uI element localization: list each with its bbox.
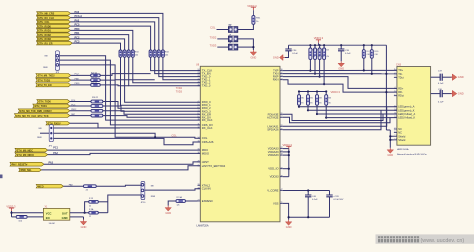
- wire bias resistor to line: [323, 59, 325, 84]
- wire VDD pin: [283, 151, 289, 153]
- ground: [340, 61, 342, 63]
- svg-text:35: 35: [281, 202, 283, 204]
- junction on rail: [371, 44, 373, 46]
- wire to RXD_2: [103, 102, 201, 109]
- svg-text:ETH_MII_TX_CLK_ETH_TCK: ETH_MII_TX_CLK_ETH_TCK: [16, 115, 49, 118]
- svg-text:R27 22: R27 22: [91, 72, 97, 74]
- junction: [307, 90, 309, 92]
- svg-text:ETH_TXD0: ETH_TXD0: [39, 101, 52, 104]
- svg-text:10k: 10k: [165, 55, 168, 57]
- svg-text:SPD/A26: SPD/A26: [267, 128, 279, 132]
- net label ETH_MII_TX_CLK_ETH_TCK: [14, 114, 70, 118]
- svg-text:22: 22: [89, 205, 91, 207]
- junction: [309, 70, 311, 72]
- ground: [83, 220, 85, 222]
- pin TXD_3: [198, 85, 201, 87]
- resistor R34 22: [89, 200, 99, 203]
- wire stub at sheet edge: [0, 175, 3, 179]
- junction VDD bus: [288, 151, 290, 153]
- wire bank1 to IC pin: [129, 57, 201, 85]
- svg-text:12: 12: [198, 127, 200, 129]
- net label ETH_TXD3: [36, 78, 71, 82]
- pin NC: [394, 128, 397, 130]
- wire to resistor: [70, 105, 91, 107]
- junction: [307, 216, 309, 218]
- wire bank2 to IC TX pin: [151, 57, 201, 70]
- svg-text:NC: NC: [398, 127, 402, 131]
- junction: [325, 90, 327, 92]
- svg-text:TXD2: TXD2: [210, 36, 217, 40]
- wire to RX_DV: [103, 116, 201, 118]
- wire IC SPD to LEDgreen_K: [283, 110, 381, 129]
- wire to RJ45 LED pin: [299, 106, 397, 108]
- svg-text:270: 270: [309, 103, 312, 105]
- svg-text:ETH_RXD3: ETH_RXD3: [38, 38, 51, 41]
- pin RXN: [280, 79, 283, 81]
- svg-text:6: 6: [198, 107, 199, 109]
- svg-text:23: 23: [198, 72, 200, 74]
- pin TXP: [280, 70, 283, 72]
- svg-text:GND: GND: [273, 56, 279, 60]
- wire MDIO to IC: [48, 153, 201, 154]
- wire shield rail down: [385, 45, 387, 130]
- pin XTAL2: [198, 184, 201, 186]
- resistor R38 270: [316, 95, 319, 106]
- wire ETH_RX_ER to resistor bank: [72, 43, 120, 50]
- junction: [84, 212, 86, 214]
- net label ETH_RX_CLK: [37, 16, 71, 20]
- svg-text:GND: GND: [81, 225, 87, 229]
- svg-text:2: 2: [394, 72, 395, 74]
- pin ACT/A2E: [280, 116, 283, 118]
- wire bank1 to IC pin: [125, 57, 201, 102]
- pin NC: [394, 132, 397, 134]
- wire JP1 to IC CLKIN: [145, 189, 201, 190]
- wire VDD pin: [283, 168, 289, 170]
- wire LED VDD rail: [299, 91, 326, 93]
- pin LNK/A31: [280, 125, 283, 127]
- net label ETH_MII_MDIO: [15, 153, 48, 157]
- pin uINT/TX_ER/TXD4: [198, 165, 201, 167]
- wire to TXD3 row: [100, 84, 129, 87]
- svg-text:ETH_RXD2: ETH_RXD2: [38, 34, 51, 37]
- svg-text:18: 18: [281, 154, 283, 156]
- svg-text:270: 270: [328, 103, 331, 105]
- svg-text:48: 48: [281, 175, 283, 177]
- svg-text:270: 270: [318, 103, 321, 105]
- svg-text:22: 22: [281, 147, 283, 149]
- svg-text:COL: COL: [202, 136, 208, 140]
- svg-text:14: 14: [198, 137, 200, 139]
- svg-text:5: 5: [394, 91, 395, 93]
- resistor R20 49.9: [309, 48, 312, 59]
- pin CLK/IN: [198, 188, 201, 190]
- svg-text:15: 15: [198, 141, 200, 143]
- wire to resistor: [71, 79, 91, 81]
- resistor R132 22: [84, 185, 97, 188]
- capacitor C39 4.7uF: [326, 195, 332, 197]
- svg-text:50.0M: 50.0M: [49, 223, 55, 225]
- wire clock to JP1: [108, 195, 141, 213]
- wire IC LED2 to LED line: [283, 117, 390, 123]
- resistor R29 22: [91, 84, 101, 87]
- junction: [371, 73, 373, 75]
- junction: [319, 76, 321, 78]
- svg-text:3: 3: [394, 76, 395, 78]
- svg-text:R31: R31: [309, 97, 312, 99]
- wire to TXD1 row: [100, 79, 155, 81]
- svg-text:XTAL2: XTAL2: [202, 183, 211, 187]
- jumper JP3 MII/RMII select: [55, 51, 59, 71]
- svg-text:VDD3.3: VDD3.3: [331, 90, 341, 94]
- resistor R35 22: [89, 211, 99, 214]
- svg-text:24: 24: [198, 69, 200, 71]
- wire COL net: [115, 131, 200, 138]
- pin SPD/A26: [280, 129, 283, 131]
- wire VDD rail: [289, 44, 387, 46]
- pin RXD_2: [198, 107, 201, 109]
- resistor array R28: [149, 50, 152, 57]
- wire JP3 pin2 to IC: [60, 60, 201, 125]
- pin VDDA33: [280, 148, 283, 150]
- svg-text:28: 28: [281, 125, 283, 127]
- junction: [288, 216, 290, 218]
- junction: [385, 73, 387, 75]
- wire to LED line: [325, 105, 327, 117]
- svg-text:GND: GND: [165, 211, 171, 215]
- wire R31 to JP2 row1: [238, 24, 254, 29]
- svg-text:10: 10: [394, 109, 396, 111]
- svg-text:ETH_TXD1: ETH_TXD1: [35, 105, 48, 108]
- svg-text:PHY_RESET#: PHY_RESET#: [12, 163, 28, 166]
- wire CT2 to C36: [431, 93, 441, 95]
- svg-text:33: 33: [198, 184, 200, 186]
- svg-text:1.2k: 1.2k: [316, 56, 319, 58]
- pin TXD_1: [198, 79, 201, 81]
- jumper JP1 clock select: [141, 181, 145, 199]
- svg-text:ETH_MII_MDIO: ETH_MII_MDIO: [17, 154, 34, 157]
- pin TD-: [394, 73, 397, 75]
- watermark: [376, 234, 474, 243]
- svg-text:RMII: RMII: [151, 196, 156, 198]
- wire ETH_COL to resistor bank: [71, 22, 155, 50]
- pin RXP: [280, 76, 283, 78]
- wire V_CORE: [283, 190, 330, 192]
- resistor R31 22: [91, 105, 103, 108]
- svg-text:16: 16: [281, 69, 283, 71]
- pin LED(green)_K: [394, 109, 397, 111]
- svg-text:+C39: +C39: [333, 196, 339, 198]
- wire to resistor: [70, 101, 91, 103]
- pin VDD_IO: [280, 168, 283, 170]
- svg-text:C40: C40: [367, 54, 370, 56]
- svg-text:23: 23: [281, 151, 283, 153]
- svg-text:TD+: TD+: [398, 68, 403, 72]
- svg-text:VSS: VSS: [273, 201, 279, 205]
- svg-text:32: 32: [281, 167, 283, 169]
- svg-text:MII: MII: [151, 186, 154, 188]
- svg-text:1.2k: 1.2k: [321, 56, 324, 58]
- wire bias resistor to line: [309, 59, 311, 70]
- svg-text:JP10: JP10: [141, 202, 147, 204]
- svg-text:RMII: RMII: [43, 67, 48, 69]
- svg-text:ETH_RXD0: ETH_RXD0: [38, 25, 51, 28]
- wire VDD pin: [283, 154, 289, 156]
- wire VSS down: [283, 203, 289, 219]
- wire JP3 pin3 down: [60, 65, 116, 131]
- net label ETH_RXDV: [46, 122, 70, 125]
- svg-text:ETH_RX_CLK: ETH_RX_CLK: [38, 17, 54, 20]
- wire VDD bus vertical: [288, 149, 290, 176]
- svg-text:nRST: nRST: [202, 160, 209, 164]
- svg-text:GND: GND: [387, 153, 393, 157]
- svg-text:CLK/IN: CLK/IN: [202, 187, 211, 191]
- svg-text:RD-: RD-: [398, 90, 403, 94]
- wire rail to shield: [386, 129, 390, 131]
- wire TXN to TD-: [283, 73, 397, 75]
- pin RDct: [394, 95, 397, 97]
- svg-text:R29 22: R29 22: [91, 82, 97, 84]
- svg-text:19: 19: [198, 84, 200, 86]
- svg-text:ETH_MII_CRS: ETH_MII_CRS: [38, 13, 54, 16]
- resistor R33 22: [91, 114, 103, 117]
- wire to RJ45 LED pin: [326, 117, 397, 119]
- wire OUT: [70, 212, 89, 214]
- resistor array R29: [153, 50, 156, 57]
- wire bias resistor to line: [319, 59, 321, 76]
- svg-text:7: 7: [198, 110, 199, 112]
- svg-text:GND: GND: [458, 92, 464, 96]
- wire COL to JP2: [217, 29, 229, 31]
- resistor R37 270: [307, 95, 310, 106]
- svg-text:R:20: R:20: [375, 51, 379, 53]
- wire bank2 to IC TX pin: [159, 57, 201, 76]
- ground left: [283, 57, 285, 59]
- net label ETH_RXD1: [37, 29, 71, 33]
- svg-text:C40: C40: [375, 54, 378, 56]
- wire bank1 to IC pin: [133, 57, 201, 82]
- svg-text:LED(Yellow)_K: LED(Yellow)_K: [398, 116, 415, 120]
- svg-text:20: 20: [198, 81, 200, 83]
- svg-text:R 13A: R 13A: [177, 196, 183, 199]
- svg-text:EXRES0: EXRES0: [202, 199, 213, 203]
- svg-text:GND: GND: [251, 55, 257, 59]
- junction: [385, 91, 387, 93]
- svg-text:COL: COL: [210, 25, 216, 29]
- chassis ground: [451, 76, 453, 78]
- svg-text:24: 24: [198, 200, 200, 202]
- svg-text:14: 14: [394, 139, 396, 141]
- wire bank1 to IC pin: [121, 57, 201, 105]
- svg-text:1.2k: 1.2k: [326, 56, 329, 58]
- net label ETH_RXD0: [37, 24, 71, 28]
- svg-text:Shield: Shield: [398, 134, 406, 138]
- svg-text:ETH_MII_TXD2: ETH_MII_TXD2: [38, 75, 56, 78]
- pin TXD_0: [198, 76, 201, 78]
- pin RD-: [394, 91, 397, 93]
- wire to C39: [329, 191, 331, 196]
- wire JP2 row2 to GND rail: [238, 39, 254, 50]
- svg-text:NC: NC: [398, 131, 402, 135]
- wire ground rail: [289, 216, 330, 218]
- svg-text:31: 31: [198, 149, 200, 151]
- svg-text:LED(Yellow)_A: LED(Yellow)_A: [398, 112, 415, 116]
- wire VDD to R31: [252, 10, 254, 15]
- svg-text:12: 12: [394, 116, 396, 118]
- svg-text:Network Interface RJ45 16-Pin: Network Interface RJ45 16-Pin: [397, 153, 428, 156]
- wire to R34: [85, 202, 89, 213]
- svg-text:4: 4: [198, 101, 199, 103]
- wire to RJ45 LED pin: [308, 109, 397, 111]
- svg-text:7: 7: [394, 128, 395, 130]
- junction: [316, 90, 318, 92]
- net label ETH_RX_ER: [37, 41, 73, 45]
- wire to IC nINT: [42, 166, 201, 170]
- junction: [316, 113, 318, 115]
- svg-text:VCC: VCC: [46, 212, 52, 216]
- wire to resistor: [71, 84, 91, 86]
- pin RX_ER: [198, 113, 201, 115]
- wire to LED line: [307, 105, 309, 110]
- svg-text:RMII: RMII: [37, 137, 42, 139]
- svg-text:(www. uucdev. cn): (www. uucdev. cn): [421, 238, 465, 244]
- pin FDUA3E: [280, 113, 283, 115]
- pin RXD_3: [198, 110, 201, 112]
- svg-text:LAN8720A: LAN8720A: [197, 224, 209, 227]
- wire TXD2 to JP2: [217, 38, 228, 40]
- svg-text:TXD3: TXD3: [176, 90, 183, 93]
- svg-text:0.1uF: 0.1uF: [438, 83, 444, 85]
- pin VDD33: [280, 176, 283, 178]
- svg-text:10k: 10k: [135, 55, 138, 57]
- wire VDD pin: [283, 148, 289, 150]
- svg-text:CRS-A26: CRS-A26: [202, 140, 214, 144]
- oscillator X1 50MHz: [43, 208, 69, 220]
- svg-text:21: 21: [198, 78, 200, 80]
- wire to RJ45 LED pin: [317, 113, 397, 115]
- pin VDDA33: [280, 151, 283, 153]
- junction VDD bus: [288, 154, 290, 156]
- pin RX_CLK: [198, 119, 201, 121]
- svg-text:R22: R22: [321, 49, 324, 51]
- svg-text:MCO: MCO: [38, 185, 44, 188]
- svg-text:R 13: R 13: [89, 198, 93, 200]
- resistor R36 270: [298, 95, 301, 106]
- svg-text:R20: R20: [312, 49, 315, 51]
- svg-text:V_CORE: V_CORE: [267, 188, 278, 192]
- svg-text:11: 11: [198, 124, 200, 126]
- pin RD+: [394, 87, 397, 89]
- svg-text:R28 22: R28 22: [91, 77, 97, 79]
- wire shield down: [389, 130, 391, 148]
- wire ETH_RX_CLK to resistor bank: [71, 18, 159, 50]
- junction: [363, 69, 365, 71]
- pin TX_CLK: [198, 70, 201, 72]
- wire to TD line: [371, 58, 373, 74]
- ground: [252, 50, 254, 52]
- svg-text:ETH_MII_TXD_RMII_CRSDV: ETH_MII_TXD_RMII_CRSDV: [20, 110, 52, 113]
- resistor R28 22: [91, 79, 101, 82]
- svg-text:RX_CLK: RX_CLK: [202, 118, 213, 122]
- svg-text:R21: R21: [316, 49, 319, 51]
- svg-text:22: 22: [89, 216, 91, 218]
- net label MCO PA8: [36, 184, 63, 188]
- junction: [340, 44, 342, 46]
- svg-text:TXD_3: TXD_3: [202, 84, 211, 88]
- svg-text:29: 29: [198, 161, 200, 163]
- junction: [10, 212, 12, 214]
- net label ETH_MII_MDC: [15, 148, 48, 152]
- wire to GND: [168, 201, 176, 206]
- svg-text:22: 22: [198, 75, 200, 77]
- net label ETH_TXD1: [33, 104, 70, 108]
- pin TXD_2: [198, 82, 201, 84]
- svg-text:4: 4: [394, 87, 395, 89]
- svg-text:CN3: CN3: [396, 63, 402, 66]
- wire ETH_RXD2 to resistor bank: [71, 35, 129, 50]
- resistor array R30: [157, 50, 160, 57]
- wire to LED line: [298, 105, 300, 107]
- resistor R23 49.9: [323, 48, 326, 59]
- svg-text:R 3A: R 3A: [89, 208, 94, 211]
- svg-text:13: 13: [281, 75, 283, 77]
- net label ETH_MII_CRS: [37, 12, 71, 16]
- pin RX_CLK: [198, 127, 201, 129]
- wire to C34: [288, 45, 290, 49]
- net label RMII_SEL: [19, 168, 42, 171]
- wire to X1 VCC: [12, 212, 44, 214]
- pin TX_EN: [198, 73, 201, 75]
- connector CN3 RJ45: [397, 67, 431, 146]
- svg-text:4.7uF/10V: 4.7uF/10V: [333, 199, 344, 201]
- wire VDD pin: [283, 176, 289, 178]
- svg-text:R30: R30: [300, 97, 303, 99]
- pin MDC: [198, 149, 201, 151]
- pin EXRES0: [198, 200, 201, 202]
- wire ETH_RXD0 to resistor bank: [71, 26, 151, 50]
- wire shields: [390, 136, 394, 140]
- wire CT1 to C37: [431, 76, 441, 78]
- svg-text:uINT/TX_ER/TXD4: uINT/TX_ER/TXD4: [202, 164, 226, 168]
- svg-text:HR911105A: HR911105A: [397, 148, 409, 151]
- wire to X1 EN: [27, 216, 43, 218]
- svg-text:8: 8: [394, 131, 395, 133]
- svg-text:TDct: TDct: [398, 75, 404, 79]
- resistor R27 22: [91, 74, 101, 77]
- wire reset to IC nRST: [44, 162, 200, 164]
- wire RXP to RD+: [283, 77, 397, 89]
- pin COL: [198, 137, 201, 139]
- wire JP5 pin3 CRS net: [54, 138, 201, 144]
- pin nRST: [198, 161, 201, 163]
- svg-text:GND: GND: [458, 75, 464, 79]
- wire bank2 to IC TX pin: [155, 57, 201, 73]
- resistor R36 12.1k: [176, 200, 185, 203]
- svg-text:RD+: RD+: [398, 86, 404, 90]
- resistor array R24: [119, 50, 122, 57]
- resistor R33 10k: [16, 216, 27, 219]
- svg-text:9: 9: [198, 116, 199, 118]
- junction: [307, 109, 309, 111]
- svg-text:COL: COL: [172, 135, 178, 138]
- svg-text:R30 22: R30 22: [92, 97, 98, 99]
- resistor R22 49.9: [318, 48, 321, 59]
- wire RXN to RD-: [283, 80, 397, 92]
- wire PA8 to JP1: [96, 185, 141, 186]
- junction on VDD rail: [323, 44, 325, 46]
- svg-text:0.1uF: 0.1uF: [292, 53, 298, 55]
- pin TXN: [280, 73, 283, 75]
